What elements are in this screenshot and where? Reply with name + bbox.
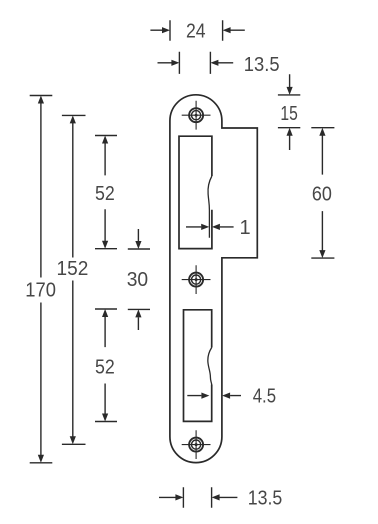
dimension 13.5 (deadbolt cutout width)	[159, 487, 237, 508]
svg-text:15: 15	[280, 103, 297, 125]
svg-text:13.5: 13.5	[244, 54, 280, 76]
screw hole top	[182, 101, 211, 130]
dimension 52 (upper cutout height)	[95, 136, 117, 249]
plate outline	[170, 95, 257, 463]
svg-text:52: 52	[95, 183, 115, 205]
dimension 152 (screw hole spacing)	[62, 115, 86, 444]
deadbolt cutout (lower rectangle)	[184, 310, 212, 422]
latch lip bend line	[208, 176, 212, 238]
dimension 30 (gap between cutouts)	[128, 229, 150, 330]
dimension 60 (flange height)	[311, 128, 334, 258]
svg-text:24: 24	[186, 20, 206, 42]
deadbolt lip bend line	[208, 348, 212, 385]
svg-text:52: 52	[95, 357, 115, 379]
screw hole bottom	[182, 430, 211, 459]
svg-text:30: 30	[127, 269, 148, 291]
dimension 15 (flange top offset)	[278, 74, 300, 150]
svg-text:13.5: 13.5	[248, 487, 283, 509]
dimension 170 (overall length)	[30, 96, 53, 463]
svg-text:152: 152	[57, 258, 89, 280]
svg-text:1: 1	[239, 217, 250, 239]
dimension 24 (plate width)	[150, 20, 244, 41]
svg-text:4.5: 4.5	[253, 385, 276, 407]
dimension 4.5 (deadbolt lip to plate edge)	[187, 393, 241, 399]
screw hole middle	[182, 265, 211, 294]
svg-text:60: 60	[312, 183, 332, 205]
dimension 1 (latch lip offset)	[186, 224, 234, 230]
latch cutout (upper rectangle)	[179, 136, 212, 248]
svg-text:170: 170	[25, 280, 56, 302]
dimension 13.5 (latch cavity width)	[158, 52, 234, 74]
dimension 52 (lower cutout height)	[95, 309, 117, 422]
